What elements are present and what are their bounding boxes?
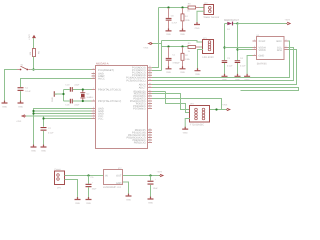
- ground (FTDI): [182, 127, 188, 135]
- capacitor C1 (AVCC decoupling): [18, 87, 32, 93]
- wire MCU ground pins: [34, 109, 92, 148]
- svg-text:GND: GND: [75, 202, 80, 205]
- node XTAL junctions: [82, 88, 84, 90]
- wire PD3 to FTDI supply: [152, 99, 222, 110]
- capacitor C4 (U1 bypass): [235, 57, 247, 76]
- svg-text:4700pF: 4700pF: [172, 62, 180, 65]
- svg-text:10uF: 10uF: [153, 187, 159, 190]
- MCU right pin stubs: [148, 68, 153, 143]
- svg-text:19: 19: [149, 82, 151, 85]
- connector JP3 FTDI: [190, 103, 210, 127]
- wire XTAL1 net: [64, 89, 92, 91]
- svg-text:ADC7: ADC7: [139, 86, 146, 89]
- node C9 junction: [149, 174, 151, 176]
- wire to +3V3 arrow: [238, 23, 287, 25]
- svg-text:4.7uF: 4.7uF: [172, 21, 178, 24]
- svg-text:OUT: OUT: [116, 174, 122, 177]
- ic U1 BMP085: [253, 34, 289, 66]
- wire switch to ground: [5, 70, 18, 104]
- svg-text:10uF: 10uF: [92, 188, 98, 191]
- wire C1 to ground: [20, 91, 22, 103]
- svg-text:PB5(SCK): PB5(SCK): [134, 141, 146, 144]
- capacitor C7h (humidity filter): [166, 47, 181, 67]
- svg-text:2: 2: [286, 39, 287, 42]
- svg-text:MEGA8-A: MEGA8-A: [96, 62, 109, 66]
- capacitor C2 (VCC decoupling): [41, 127, 55, 135]
- wire U1 SCL to PC5: [152, 48, 294, 81]
- svg-text:LM2936MP-3.3: LM2936MP-3.3: [103, 186, 121, 189]
- wire switch to reset node and MCU: [31, 69, 92, 71]
- svg-text:Water Sensor: Water Sensor: [204, 16, 220, 19]
- node reset junction: [32, 68, 34, 70]
- svg-text:PC5(ADC5/SCL): PC5(ADC5/SCL): [126, 79, 145, 82]
- MCU pin numbers: [93, 65, 151, 143]
- svg-text:28: 28: [149, 78, 151, 81]
- ic IC2 LM2936MP-3.3: [103, 167, 123, 189]
- resistor R5 (reset pullup): [29, 49, 41, 57]
- svg-text:GND: GND: [2, 105, 7, 108]
- wire regulator output: [123, 175, 160, 177]
- ground (C4): [235, 74, 241, 81]
- connector JP2 water sensor: [204, 2, 220, 19]
- wire aux net right edge: [152, 88, 299, 91]
- ground (JP2): [194, 22, 200, 30]
- svg-text:7: 7: [286, 47, 287, 50]
- svg-text:VDDD: VDDD: [259, 49, 266, 52]
- resistor R2 (humidity pulldown): [181, 47, 191, 67]
- node GND pin junctions: [32, 110, 34, 112]
- svg-text:4: 4: [254, 47, 255, 50]
- ground (MCU gnd pins): [31, 145, 37, 153]
- svg-text:+3V3: +3V3: [157, 170, 163, 173]
- svg-text:1: 1: [254, 53, 255, 56]
- ground (JP1): [195, 68, 201, 76]
- power +3V3 P5 (FTDI, arrow right): [222, 104, 230, 111]
- svg-text:+3V3: +3V3: [16, 120, 22, 123]
- resistor R3 (water series): [187, 2, 204, 12]
- svg-text:PD7(AIN1): PD7(AIN1): [133, 107, 145, 110]
- node humidity rail junctions: [167, 45, 169, 47]
- svg-text:Power: Power: [55, 168, 61, 171]
- power +3V3 P4 (arrow right): [285, 18, 291, 25]
- svg-text:GND: GND: [180, 33, 185, 36]
- svg-text:GND: GND: [86, 202, 91, 205]
- wire to U1 VDDH / VDDD: [225, 48, 253, 50]
- svg-text:XCLR: XCLR: [259, 40, 266, 43]
- svg-text:GND: GND: [31, 149, 36, 152]
- svg-text:AVCC: AVCC: [98, 77, 105, 80]
- power +3V3 P6 (reg out, arrow right): [157, 170, 164, 176]
- svg-text:7: 7: [93, 87, 94, 90]
- svg-text:FTDI BASIC: FTDI BASIC: [190, 124, 204, 127]
- svg-text:6: 6: [254, 39, 255, 42]
- svg-text:17: 17: [149, 140, 151, 143]
- svg-text:HIH-4030: HIH-4030: [203, 56, 215, 59]
- svg-text:27: 27: [149, 75, 151, 78]
- svg-text:GND: GND: [195, 27, 200, 30]
- power +3V3 P1 (reset pullup supply): [28, 34, 36, 49]
- capacitor C3x (XTAL1 load): [65, 84, 80, 92]
- switch S1 (reset): [17, 63, 31, 70]
- svg-text:0.1uF: 0.1uF: [227, 64, 233, 67]
- capacitor C6 (input bulk): [86, 176, 98, 200]
- node C6 junction: [87, 174, 89, 176]
- ground (R2): [180, 66, 186, 73]
- wire power gnd pin: [65, 180, 78, 200]
- connector JP1 HIH-4030: [203, 37, 215, 59]
- wire U1 EOC to PC4: [152, 41, 290, 78]
- node VCC junction: [42, 117, 44, 119]
- wire power to regulator: [65, 175, 104, 177]
- U1 pin numbers: [254, 39, 287, 57]
- MCU IC1 MEGA8-A: [96, 62, 148, 149]
- resistor R1 (humidity series): [188, 42, 204, 53]
- wire ADC0 to water sensor node: [152, 8, 159, 68]
- resistor R4 (water pulldown): [181, 8, 190, 29]
- ground (crystal, rotated): [51, 91, 57, 102]
- wire JP1 pin4 to ground: [198, 50, 204, 70]
- svg-text:GND: GND: [183, 132, 188, 135]
- wire sensor supply: [153, 41, 204, 71]
- ground (C2): [41, 145, 47, 153]
- svg-text:8: 8: [93, 98, 94, 101]
- wire crystal gnd: [54, 90, 63, 102]
- svg-text:VCC: VCC: [98, 117, 104, 120]
- wire VDD rail down: [237, 24, 239, 61]
- wire reset pullup to node: [33, 57, 35, 70]
- svg-text:PB7(XTAL2/TOSC2): PB7(XTAL2/TOSC2): [98, 100, 121, 103]
- svg-text:29: 29: [93, 67, 95, 70]
- svg-text:+3V3: +3V3: [28, 34, 31, 40]
- wire AVCC to C1: [21, 79, 92, 88]
- svg-text:IN: IN: [105, 174, 108, 177]
- wire U1 GND pin to ground: [247, 56, 252, 77]
- svg-text:GND: GND: [180, 71, 185, 74]
- capacitor C3 (U1 bypass): [222, 57, 234, 76]
- svg-text:GND: GND: [116, 182, 122, 185]
- ground (C3): [222, 74, 228, 81]
- svg-text:+3V3: +3V3: [285, 18, 291, 21]
- node water rail junctions: [167, 6, 169, 8]
- svg-text:GND: GND: [18, 105, 23, 108]
- wire PD0 RXD to FTDI: [152, 92, 190, 113]
- svg-text:+3V3: +3V3: [143, 47, 149, 50]
- svg-text:GND: GND: [259, 54, 265, 57]
- ground (C1): [18, 101, 24, 109]
- wire XTAL2 net: [64, 100, 92, 102]
- wire FTDI vcc to +3V3: [210, 109, 226, 111]
- svg-text:18: 18: [93, 76, 95, 79]
- wire JP2 pin2 to ground: [197, 11, 204, 24]
- wire ADC1 to humidity rail: [152, 47, 188, 71]
- svg-text:GND: GND: [166, 33, 171, 36]
- diode D1 MBR0520LT: [224, 19, 239, 31]
- ground (C8): [166, 29, 172, 36]
- ground (switch): [2, 101, 8, 109]
- svg-text:22: 22: [149, 85, 151, 88]
- svg-text:0.1uF: 0.1uF: [25, 90, 31, 93]
- svg-text:GND: GND: [41, 149, 46, 152]
- svg-text:22pF: 22pF: [74, 104, 80, 107]
- ground (R4): [180, 29, 186, 36]
- crystal Q1: [80, 90, 93, 102]
- svg-text:GND: GND: [148, 201, 153, 204]
- capacitor C9 (output bulk): [148, 176, 159, 200]
- svg-text:16MHz: 16MHz: [86, 96, 93, 99]
- wire regulator gnd: [123, 182, 129, 196]
- svg-text:0.1uF: 0.1uF: [240, 64, 246, 67]
- svg-text:EOC: EOC: [276, 40, 282, 43]
- svg-text:6: 6: [93, 116, 94, 119]
- wire FTDI to ground: [185, 119, 190, 130]
- ground (humidity cap): [166, 66, 172, 73]
- ground (U1): [244, 74, 250, 81]
- svg-text:GND: GND: [195, 73, 200, 76]
- svg-text:GND: GND: [166, 71, 171, 74]
- svg-text:11: 11: [149, 106, 151, 109]
- svg-text:BMP085: BMP085: [257, 63, 268, 66]
- ground (power): [75, 197, 81, 205]
- wire C2 to ground: [43, 131, 45, 147]
- connector JP4 power input: [55, 168, 65, 190]
- node U1 supply junctions: [223, 46, 225, 48]
- MCU left pin stubs: [92, 70, 97, 119]
- svg-text:SDA: SDA: [277, 49, 283, 52]
- svg-text:22pF: 22pF: [74, 84, 80, 87]
- wire water sensor rail: [159, 7, 189, 9]
- ground (C9): [148, 197, 154, 205]
- node D1 cathode junction: [236, 22, 238, 24]
- capacitor C4x (XTAL2 load): [65, 99, 80, 107]
- wire D1 anode rail down: [224, 24, 226, 61]
- svg-text:GND: GND: [51, 97, 54, 102]
- power +3V3 P2 (MCU VCC, arrow left): [16, 115, 26, 123]
- ground (IC2): [126, 194, 132, 202]
- power +3V3 P3 (sensor supply, arrow left): [143, 42, 153, 49]
- ground (C6): [86, 197, 92, 205]
- MCU pin name labels: [98, 69, 121, 121]
- svg-text:+3V3: +3V3: [222, 104, 228, 107]
- wire MCU VCC pins: [26, 116, 92, 127]
- svg-text:MBR0520LT: MBR0520LT: [224, 19, 239, 22]
- svg-text:GND: GND: [126, 198, 131, 201]
- wire U1 SDA to ADC7: [152, 50, 297, 85]
- capacitor C8 (water filter): [166, 8, 178, 29]
- wire PD1 TXD to FTDI: [152, 94, 190, 110]
- svg-text:PB6(XTAL1/TOSC1): PB6(XTAL1/TOSC1): [98, 88, 121, 91]
- svg-text:0.1uF: 0.1uF: [48, 132, 54, 135]
